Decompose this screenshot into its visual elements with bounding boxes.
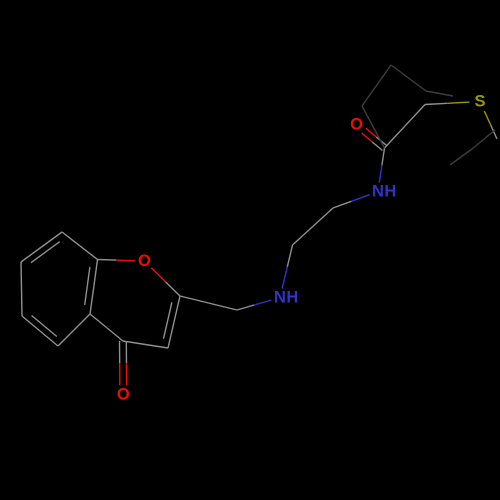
svg-text:H: H bbox=[286, 289, 298, 307]
bond CH2-CH2 (ethylene linker) bbox=[293, 208, 334, 245]
aromatic bond C4a=C8a (fused edge) bbox=[85, 260, 98, 315]
bond N-CH2 (amide N to ethylene linker) bbox=[333, 195, 370, 208]
bond O1-C8a (pyranone ring) bbox=[98, 260, 135, 261]
faint ghost bond CH2-CH3 descender (alternate frame) bbox=[450, 149, 472, 165]
faint ghost bond S-CH2 descender (alternate frame) bbox=[472, 130, 495, 149]
bond S-CH3 (methyl, clipped at canvas edge) bbox=[484, 111, 497, 139]
svg-text:N: N bbox=[274, 289, 286, 307]
bond N-CH2 (amine to chromone methylene) bbox=[237, 300, 271, 310]
bond S-CH2 (thioether) bbox=[425, 102, 470, 104]
faint ghost bond CH2-S (alternate frame) bbox=[426, 91, 453, 96]
faint ghost bond CH2-CH2 apex right (alternate frame) bbox=[391, 65, 426, 91]
svg-text:H: H bbox=[384, 183, 396, 201]
faint ghost bond C(=O)-CH2 (alternate frame) bbox=[362, 106, 385, 148]
aromatic bond C8=C7 (benzo ring) bbox=[21, 232, 62, 263]
double bond C2=C3 (pyranone ring) bbox=[164, 296, 181, 348]
bond C4-C4a (pyranone ring) bbox=[90, 314, 123, 341]
aromatic bond C6=C5 (benzo ring) bbox=[22, 316, 58, 347]
aromatic bond C5-C4a (benzo ring) bbox=[58, 314, 90, 346]
double bond C=O (amide carbonyl) bbox=[362, 128, 387, 150]
svg-text:O: O bbox=[350, 116, 363, 134]
svg-text:O: O bbox=[138, 252, 151, 270]
double bond C4=O (chromone ketone) bbox=[120, 341, 127, 385]
bond CH2-C(=O) bbox=[385, 105, 426, 149]
faint ghost bond CH2-CH2 apex left (alternate frame) bbox=[362, 65, 391, 106]
bond C2-O1 (pyranone ring) bbox=[151, 268, 180, 296]
svg-text:O: O bbox=[117, 386, 130, 404]
bond CH2-C2 (methylene to chromone C2) bbox=[180, 296, 237, 310]
svg-text:S: S bbox=[474, 93, 485, 111]
aromatic bond C8a-C8 (benzo ring) bbox=[62, 232, 98, 260]
bond C3-C4 (pyranone ring) bbox=[123, 341, 168, 348]
svg-text:N: N bbox=[372, 183, 384, 201]
aromatic bond C7-C6 (benzo ring) bbox=[21, 262, 22, 316]
bond CH2-N (linker to amine) bbox=[282, 245, 292, 289]
bond C(=O)-N (amide) bbox=[379, 148, 384, 183]
